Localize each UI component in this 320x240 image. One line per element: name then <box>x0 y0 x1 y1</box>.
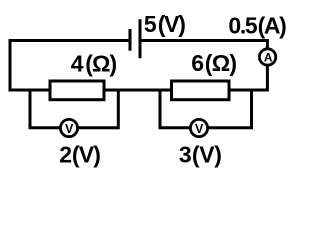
voltmeter V2 <box>190 119 207 136</box>
wire from battery to top-right corner down to ammeter <box>142 41 268 49</box>
svg-text:6(Ω): 6(Ω) <box>191 50 237 76</box>
svg-text:0.5(A): 0.5(A) <box>228 13 286 39</box>
svg-text:V: V <box>195 122 204 136</box>
voltmeter V1 <box>60 119 77 136</box>
wire ammeter bottom to middle rail right segment <box>229 66 267 90</box>
svg-text:5(V): 5(V) <box>144 11 186 37</box>
wire voltmeter V1 loop across R1 <box>30 89 118 128</box>
resistor R1 4 ohm <box>50 81 104 100</box>
battery B1 short plate <box>129 29 132 51</box>
resistor R2 6 ohm <box>172 81 230 100</box>
svg-text:4(Ω): 4(Ω) <box>71 51 117 77</box>
svg-text:2(V): 2(V) <box>59 142 101 168</box>
wire top-left and left side down to middle rail <box>10 41 129 91</box>
ammeter A1 <box>259 49 275 65</box>
svg-text:A: A <box>264 51 273 65</box>
svg-text:V: V <box>65 122 74 136</box>
svg-text:3(V): 3(V) <box>179 142 222 168</box>
battery B1 long plate <box>139 19 142 58</box>
wire middle rail between resistors <box>104 89 172 92</box>
wire voltmeter V2 loop across R2 <box>160 89 252 128</box>
